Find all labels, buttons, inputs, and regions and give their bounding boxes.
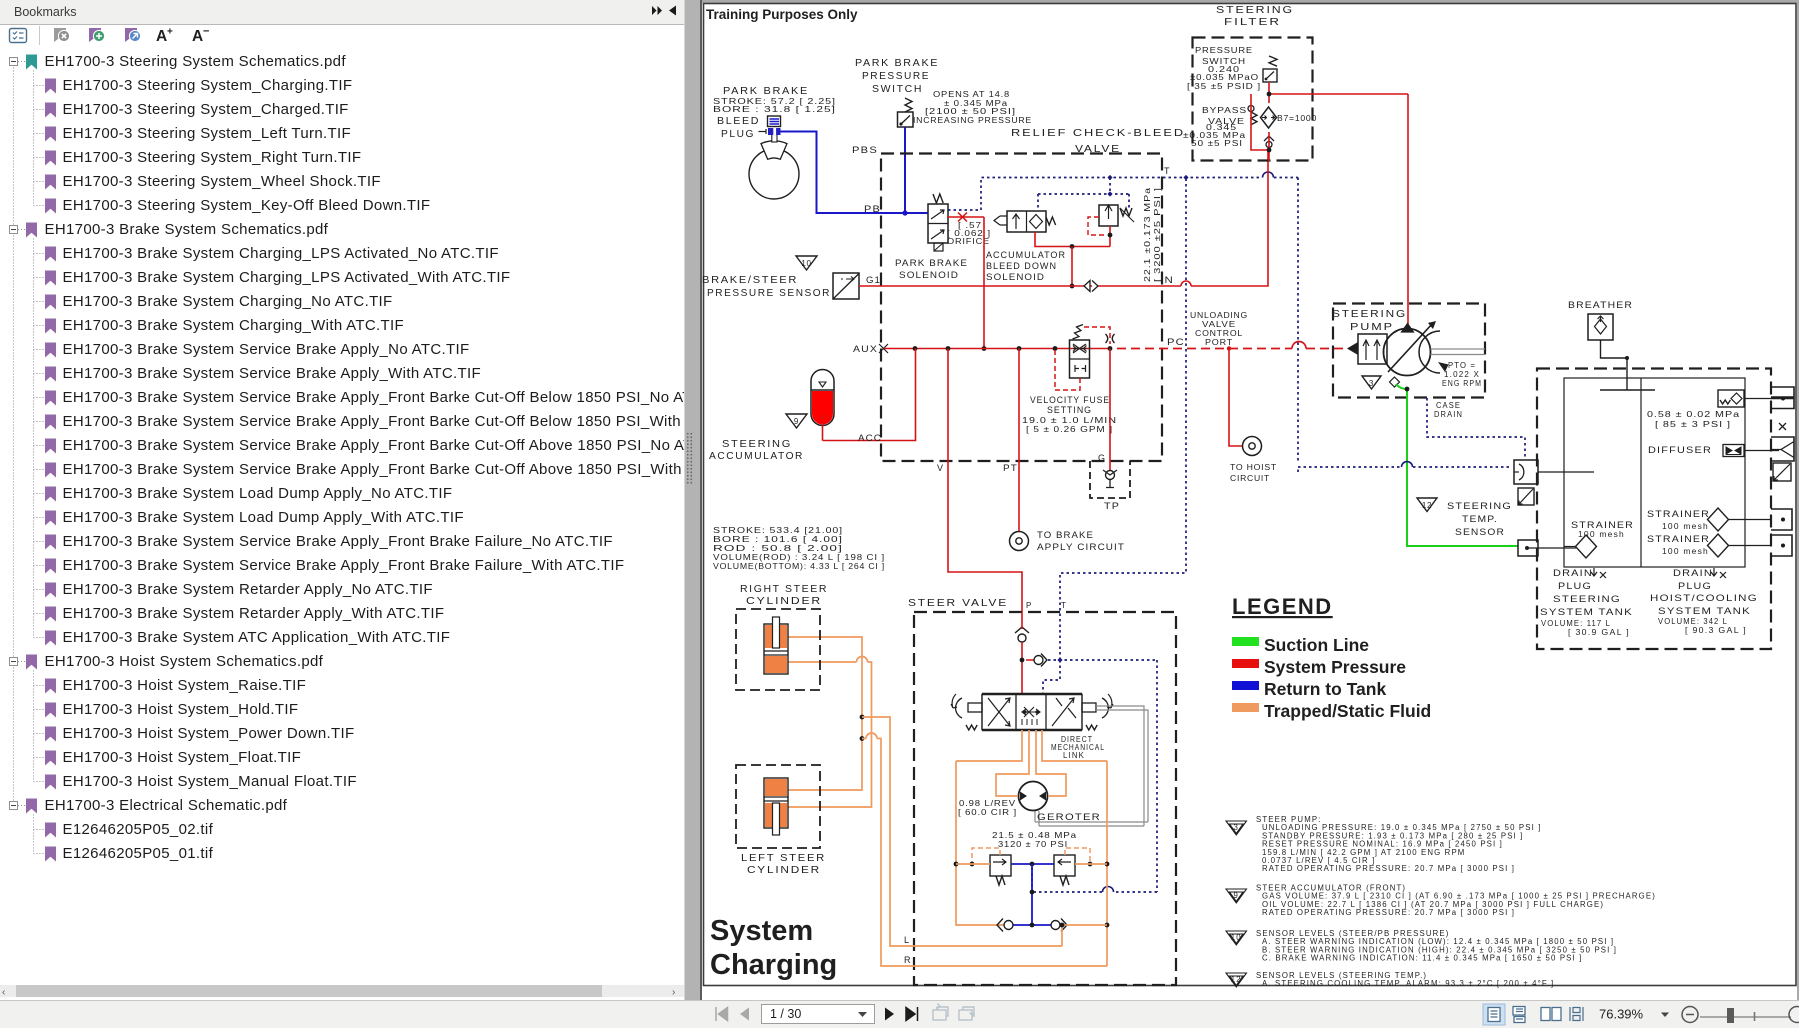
steering and hoist/cooling tank enclosure [1537,369,1771,650]
diffuser inlet port [1771,437,1794,461]
svg-text:1.022 X: 1.022 X [1444,370,1480,379]
svg-text:A: A [192,28,203,45]
svg-text:V: V [937,463,944,473]
svg-text:C. BRAKE WARNING INDICATION: 1: C. BRAKE WARNING INDICATION: 11.4 ± 0.34… [1262,954,1582,963]
svg-text:DIFFUSER: DIFFUSER [1648,445,1712,455]
tank port upper right [1771,387,1794,409]
wire: bleed plug to PB junction (blue) [781,132,929,214]
svg-text:STEERING: STEERING [1447,501,1512,511]
warning triangle 3 (pump) [1362,376,1381,389]
svg-text:CYLINDER: CYLINDER [746,595,822,607]
wire: PC pilot line (red dashed) [1117,348,1292,350]
svg-text:[ 30.9 GAL ]: [ 30.9 GAL ] [1568,628,1630,637]
svg-text:BRAKE/STEER: BRAKE/STEER [702,274,798,286]
pilot: T to relief bridge (navy dotted) [1032,660,1157,892]
svg-text:G1: G1 [866,275,881,285]
svg-text:GEROTER: GEROTER [1037,812,1101,822]
svg-text:FILTER: FILTER [1224,16,1281,28]
svg-text:SYSTEM TANK: SYSTEM TANK [1540,607,1633,617]
svg-text:[ 5 ± 0.26 GPM ]: [ 5 ± 0.26 GPM ] [1026,425,1113,434]
strainer outlet port lower [1771,535,1792,556]
svg-text:VELOCITY FUSE: VELOCITY FUSE [1030,395,1110,405]
svg-text:BYPASS: BYPASS [1202,106,1247,115]
svg-text:PT: PT [1003,463,1018,473]
svg-text:Training Purposes Only: Training Purposes Only [706,7,858,22]
wires: valve to gerotor (orange) [956,730,1107,761]
svg-text:STEERING: STEERING [1553,594,1621,604]
svg-text:PRESSURE: PRESSURE [862,70,930,82]
wire: left trapped leg (orange) [956,761,1004,925]
svg-text:[ 60.0 CIR ]: [ 60.0 CIR ] [958,808,1017,817]
svg-text:B7=1000: B7=1000 [1277,114,1317,123]
svg-text:ACCUMULATOR: ACCUMULATOR [709,450,804,462]
svg-text:10: 10 [1231,933,1242,942]
svg-text:PC: PC [1167,337,1185,347]
wire: pressure switch drop (blue) [904,127,906,213]
accumulator bleed down solenoid valve [1007,211,1046,232]
legend trapped/static fluid [1232,703,1259,712]
steer valve enclosure [914,612,1176,985]
steer valve body [982,694,1082,730]
steering temp sensor fitting [1514,460,1538,484]
svg-text:STRAINER: STRAINER [1647,534,1710,544]
tank return relief 0.58 MPa [1718,390,1744,407]
pump case drain check [1390,377,1400,387]
svg-text:PBS: PBS [852,145,878,155]
svg-text:3120 ± 70 PSI: 3120 ± 70 PSI [998,840,1068,849]
steering pump enclosure [1333,304,1485,398]
svg-text:A. STEERING COOLING TEMP. ALAR: A. STEERING COOLING TEMP. ALARM: 93.3 ± … [1262,979,1554,988]
svg-text:PARK BRAKE: PARK BRAKE [855,57,939,69]
svg-text:PUMP: PUMP [1350,321,1394,333]
svg-text:[ 85 ± 3 PSI ]: [ 85 ± 3 PSI ] [1655,420,1731,429]
warning triangle 12 [1417,498,1437,512]
wires: check tails (orange) [1060,924,1107,926]
svg-text:DRAIN: DRAIN [1553,568,1593,578]
svg-text:100 mesh: 100 mesh [1662,522,1709,531]
wire: orifice to AUX (red) [983,217,985,349]
wire: R-cyl top to L-cyl top (orange) [788,637,862,790]
svg-text:VOLUME(ROD) : 3.24 L [ 198: VOLUME(ROD) : 3.24 L [ 198 CI ] [713,553,885,562]
svg-text:Trapped/Static Fluid: Trapped/Static Fluid [1264,701,1431,721]
pump PTO shaft [1431,348,1486,350]
wire: IN supply line (red) [859,150,1268,286]
spool left section arrows [988,698,1010,726]
svg-text:STEER VALVE: STEER VALVE [908,597,1008,609]
anti-cavitation checks (blue) [1013,924,1051,926]
svg-text:SENSOR: SENSOR [1455,527,1505,537]
filter bypass valve [1248,106,1254,112]
svg-text:CYLINDER: CYLINDER [747,864,821,876]
relief check-bleed valve enclosure [881,154,1162,462]
relief bridge (blue) [1011,863,1054,865]
svg-text:TP: TP [1104,501,1120,511]
svg-text:[2100 ± 50 PSI]: [2100 ± 50 PSI] [925,107,1016,116]
svg-text:T: T [1164,166,1171,176]
TP test port pocket [1090,461,1130,498]
svg-text:VOLUME: 117 L: VOLUME: 117 L [1541,619,1611,628]
svg-text:ROD : 50.8 [ 2.00]: ROD : 50.8 [ 2.00] [713,544,843,553]
svg-text:T: T [1061,601,1067,610]
wire: R feeder (orange) [862,739,1107,967]
svg-text:UNLOADING: UNLOADING [1190,311,1248,320]
steering filter enclosure [1193,38,1313,161]
svg-text:3: 3 [1234,823,1240,832]
svg-text:CASE: CASE [1436,401,1461,410]
svg-text:OPENS AT 14.8: OPENS AT 14.8 [933,90,1010,99]
svg-text:Charging: Charging [710,949,837,981]
svg-text:SYSTEM TANK: SYSTEM TANK [1658,606,1751,616]
temp sensor indicator [1518,488,1534,505]
svg-text:CONTROL: CONTROL [1195,329,1243,338]
wire: L feeder (orange) [862,717,1062,946]
pilot line: unloading control (navy dotted) [1298,178,1512,473]
wire: ACC line (red) [823,349,916,441]
wire: V line to steer valve P (red) [948,349,1022,613]
svg-text:SOLENOID: SOLENOID [899,270,959,280]
warning triangle 9 (notes) [1226,889,1247,903]
svg-text:IN: IN [1160,275,1174,285]
svg-text:STRAINER: STRAINER [1647,509,1710,519]
svg-text:AUX: AUX [853,344,878,354]
bleed plug [768,116,781,127]
steer valve inlet check [1015,627,1029,633]
svg-text:[ 90.3 GAL ]: [ 90.3 GAL ] [1685,626,1747,635]
filter element [1261,107,1277,128]
pilot relief valve [1099,205,1118,226]
pilot line: case drain sensing (navy dotted) [1427,398,1525,458]
legend return to tank [1232,681,1259,690]
relief pilot left (orange dashed) [972,848,1000,864]
wire: PT line to brake apply (red) [1018,349,1020,532]
svg-text:100 mesh: 100 mesh [1662,547,1709,556]
warning triangle 9 [786,414,807,428]
svg-text:Return to Tank: Return to Tank [1264,679,1386,699]
relief pilot right (orange dashed) [1065,848,1090,864]
svg-text:Suction Line: Suction Line [1264,635,1369,655]
svg-text:PORT: PORT [1205,338,1233,347]
steering accumulator [811,390,834,426]
svg-text:STEERING: STEERING [1216,4,1294,16]
svg-text:9: 9 [794,417,799,426]
svg-text:ACC: ACC [858,433,882,443]
svg-text:RATED OPERATING PRESSURE: 20.7: RATED OPERATING PRESSURE: 20.7 MPa [ 300… [1262,908,1515,917]
warning triangle 3 (notes) [1226,821,1247,835]
svg-text:TO HOIST: TO HOIST [1230,463,1277,472]
to hoist circuit port [1243,437,1262,456]
spool right section arrows [1052,698,1076,726]
svg-text:DRAIN: DRAIN [1434,410,1463,419]
svg-text:BORE : 31.8 [ 1.25]: BORE : 31.8 [ 1.25] [713,105,836,114]
wire: case drain (green) [1396,384,1518,546]
wires: relief header (orange) [956,863,990,865]
svg-text:76.39%: 76.39% [1599,1007,1644,1022]
svg-text:+: + [167,27,173,38]
wire: R-cyl bottom to L-cyl bottom (orange) [788,662,872,807]
svg-text:VALVE: VALVE [1202,320,1236,329]
wires: filter circuit (red) [1251,82,1408,161]
tank level sensor [1773,463,1791,481]
svg-text:INCREASING PRESSURE: INCREASING PRESSURE [913,116,1032,125]
svg-text:DRAIN: DRAIN [1673,568,1713,578]
orifice between solenoid and bleed line [947,216,984,218]
svg-text:P: P [1026,601,1032,610]
park brake actuator [749,149,799,199]
gerotor motor [1019,782,1048,811]
svg-text:SWITCH: SWITCH [872,83,923,95]
filter pressure switch [1269,56,1277,66]
svg-text:PARK BRAKE: PARK BRAKE [723,85,809,97]
wire: P drop (red) [1021,612,1023,694]
svg-text:LINK: LINK [1063,751,1085,760]
svg-text:LEGEND: LEGEND [1232,594,1333,619]
svg-text:[ 35 ±5 PSID ]: [ 35 ±5 PSID ] [1187,82,1261,91]
svg-text:L: L [904,935,910,945]
check to T loop [1026,659,1034,661]
svg-text:R: R [904,955,912,965]
svg-text:50 ±5 PSI: 50 ±5 PSI [1191,139,1243,148]
velocity fuse pilot (red dashed) [1084,327,1110,344]
port mark X [1779,423,1786,430]
check valve on IN line [1084,281,1098,292]
svg-text:10: 10 [801,259,811,268]
park brake pressure switch PBS [905,98,912,112]
svg-text:PTO =: PTO = [1448,361,1476,370]
velocity fuse [1070,340,1090,378]
svg-text:PRESSURE: PRESSURE [1195,46,1253,55]
legend system pressure [1232,659,1259,668]
drawing border frame [704,4,1797,986]
svg-text:ACCUMULATOR: ACCUMULATOR [986,250,1066,260]
svg-text:RELIEF CHECK-BLEED: RELIEF CHECK-BLEED [1011,127,1185,139]
svg-text:SETTING: SETTING [1047,405,1092,415]
svg-text:RATED OPERATING PRESSURE: 20.7: RATED OPERATING PRESSURE: 20.7 MPa [ 300… [1262,864,1515,873]
velocity fuse drain pilot (red dashed) [1055,349,1080,390]
wire: branch to hoist circuit (red) [1229,349,1242,447]
svg-text:G: G [1098,453,1106,463]
svg-text:STROKE: 533.4 [21.00]: STROKE: 533.4 [21.00] [713,526,843,535]
svg-text:TO BRAKE: TO BRAKE [1037,530,1094,540]
wire: bleed solenoid to IN (red) [1035,232,1110,247]
svg-text:PLUG: PLUG [1558,581,1592,591]
tank walls [1564,378,1745,567]
svg-text:−: − [203,26,209,38]
brake/steer pressure sensor [833,273,859,299]
svg-text:A: A [156,28,167,45]
svg-text:STRAINER: STRAINER [1571,520,1634,530]
wire: AUX header (red) [884,348,1110,350]
svg-text:BORE : 101.6 [ 4.00]: BORE : 101.6 [ 4.00] [713,535,843,544]
wire: right trapped leg (orange) [1106,761,1108,966]
pilot: T return (navy dotted) [1043,178,1186,695]
svg-text:12: 12 [1231,975,1242,984]
svg-text:STEERING: STEERING [722,438,792,450]
steering pump [1384,329,1431,376]
svg-text:21.5 ± 0.48 MPa: 21.5 ± 0.48 MPa [992,831,1077,840]
svg-text:VOLUME: 342 L: VOLUME: 342 L [1658,617,1728,626]
svg-text:9: 9 [1234,891,1240,900]
pilot line T (navy dotted) [948,178,1298,211]
strainer outlet port upper [1771,509,1792,530]
wire: G line to TP (red) [1109,349,1111,471]
pilot branch to bleed solenoid (navy dotted) [1038,178,1129,212]
svg-text:19.0 ± 1.0 L/MIN: 19.0 ± 1.0 L/MIN [1022,416,1117,425]
svg-text:BLEED: BLEED [717,115,760,127]
park brake solenoid valve [928,204,948,243]
svg-text:12: 12 [1422,501,1432,510]
svg-text:SOLENOID: SOLENOID [986,272,1045,282]
pilot relief drain (red) [1109,226,1111,247]
svg-text:PLUG: PLUG [1678,581,1712,591]
svg-text:VOLUME(BOTTOM): 4.33 L [ 264 C: VOLUME(BOTTOM): 4.33 L [ 264 CI ] [713,562,885,571]
wire: suction line (green) [1518,540,1538,556]
svg-text:ENG RPM: ENG RPM [1442,379,1482,388]
svg-text:PRESSURE SENSOR: PRESSURE SENSOR [707,287,831,299]
svg-text:[ 3200 ±25 PSI ]: [ 3200 ±25 PSI ] [1153,187,1162,282]
svg-text:±0.035 MPaO: ±0.035 MPaO [1190,73,1259,82]
svg-text:0.98 L/REV: 0.98 L/REV [959,799,1016,808]
svg-text:STEERING: STEERING [1332,308,1407,320]
legend suction line [1232,637,1259,646]
svg-text:PLUG: PLUG [721,128,755,140]
mechanical link (gray) [1096,706,1148,826]
svg-text:HOIST/COOLING: HOIST/COOLING [1650,593,1758,603]
valve left cap and spring [968,703,982,712]
svg-text:RIGHT STEER: RIGHT STEER [740,583,828,595]
svg-text:BLEED DOWN: BLEED DOWN [986,261,1057,271]
svg-text:PARK BRAKE: PARK BRAKE [895,258,968,268]
valve right cap and spring [1082,703,1096,712]
svg-text:LEFT STEER: LEFT STEER [741,852,826,864]
filter outlet check [1264,136,1274,141]
svg-text:TEMP.: TEMP. [1462,514,1498,524]
svg-text:CIRCUIT: CIRCUIT [1230,474,1270,483]
wire: breather to tank [1601,340,1628,390]
spool centre section [1022,707,1040,717]
to brake apply circuit port [1010,532,1029,551]
svg-text:System: System [710,915,813,947]
warning triangle 12 (notes) [1226,973,1247,987]
svg-text:22.1 ±0.173 MPa: 22.1 ±0.173 MPa [1143,187,1152,282]
svg-text:PB: PB [864,204,881,214]
svg-text:System Pressure: System Pressure [1264,657,1406,677]
left steer cylinder [736,765,820,848]
svg-text:APPLY CIRCUIT: APPLY CIRCUIT [1037,542,1125,552]
svg-text:3: 3 [1369,379,1374,388]
svg-text:VALVE: VALVE [1075,143,1121,155]
svg-text:1 / 30: 1 / 30 [770,1007,801,1021]
warning triangle 10 (notes) [1226,931,1247,945]
svg-text:0.58 ± 0.02 MPa: 0.58 ± 0.02 MPa [1647,410,1740,419]
wire: pump outlet riser (red) [1407,94,1409,331]
svg-text:BREATHER: BREATHER [1568,300,1633,310]
warning triangle 10 [796,256,817,270]
